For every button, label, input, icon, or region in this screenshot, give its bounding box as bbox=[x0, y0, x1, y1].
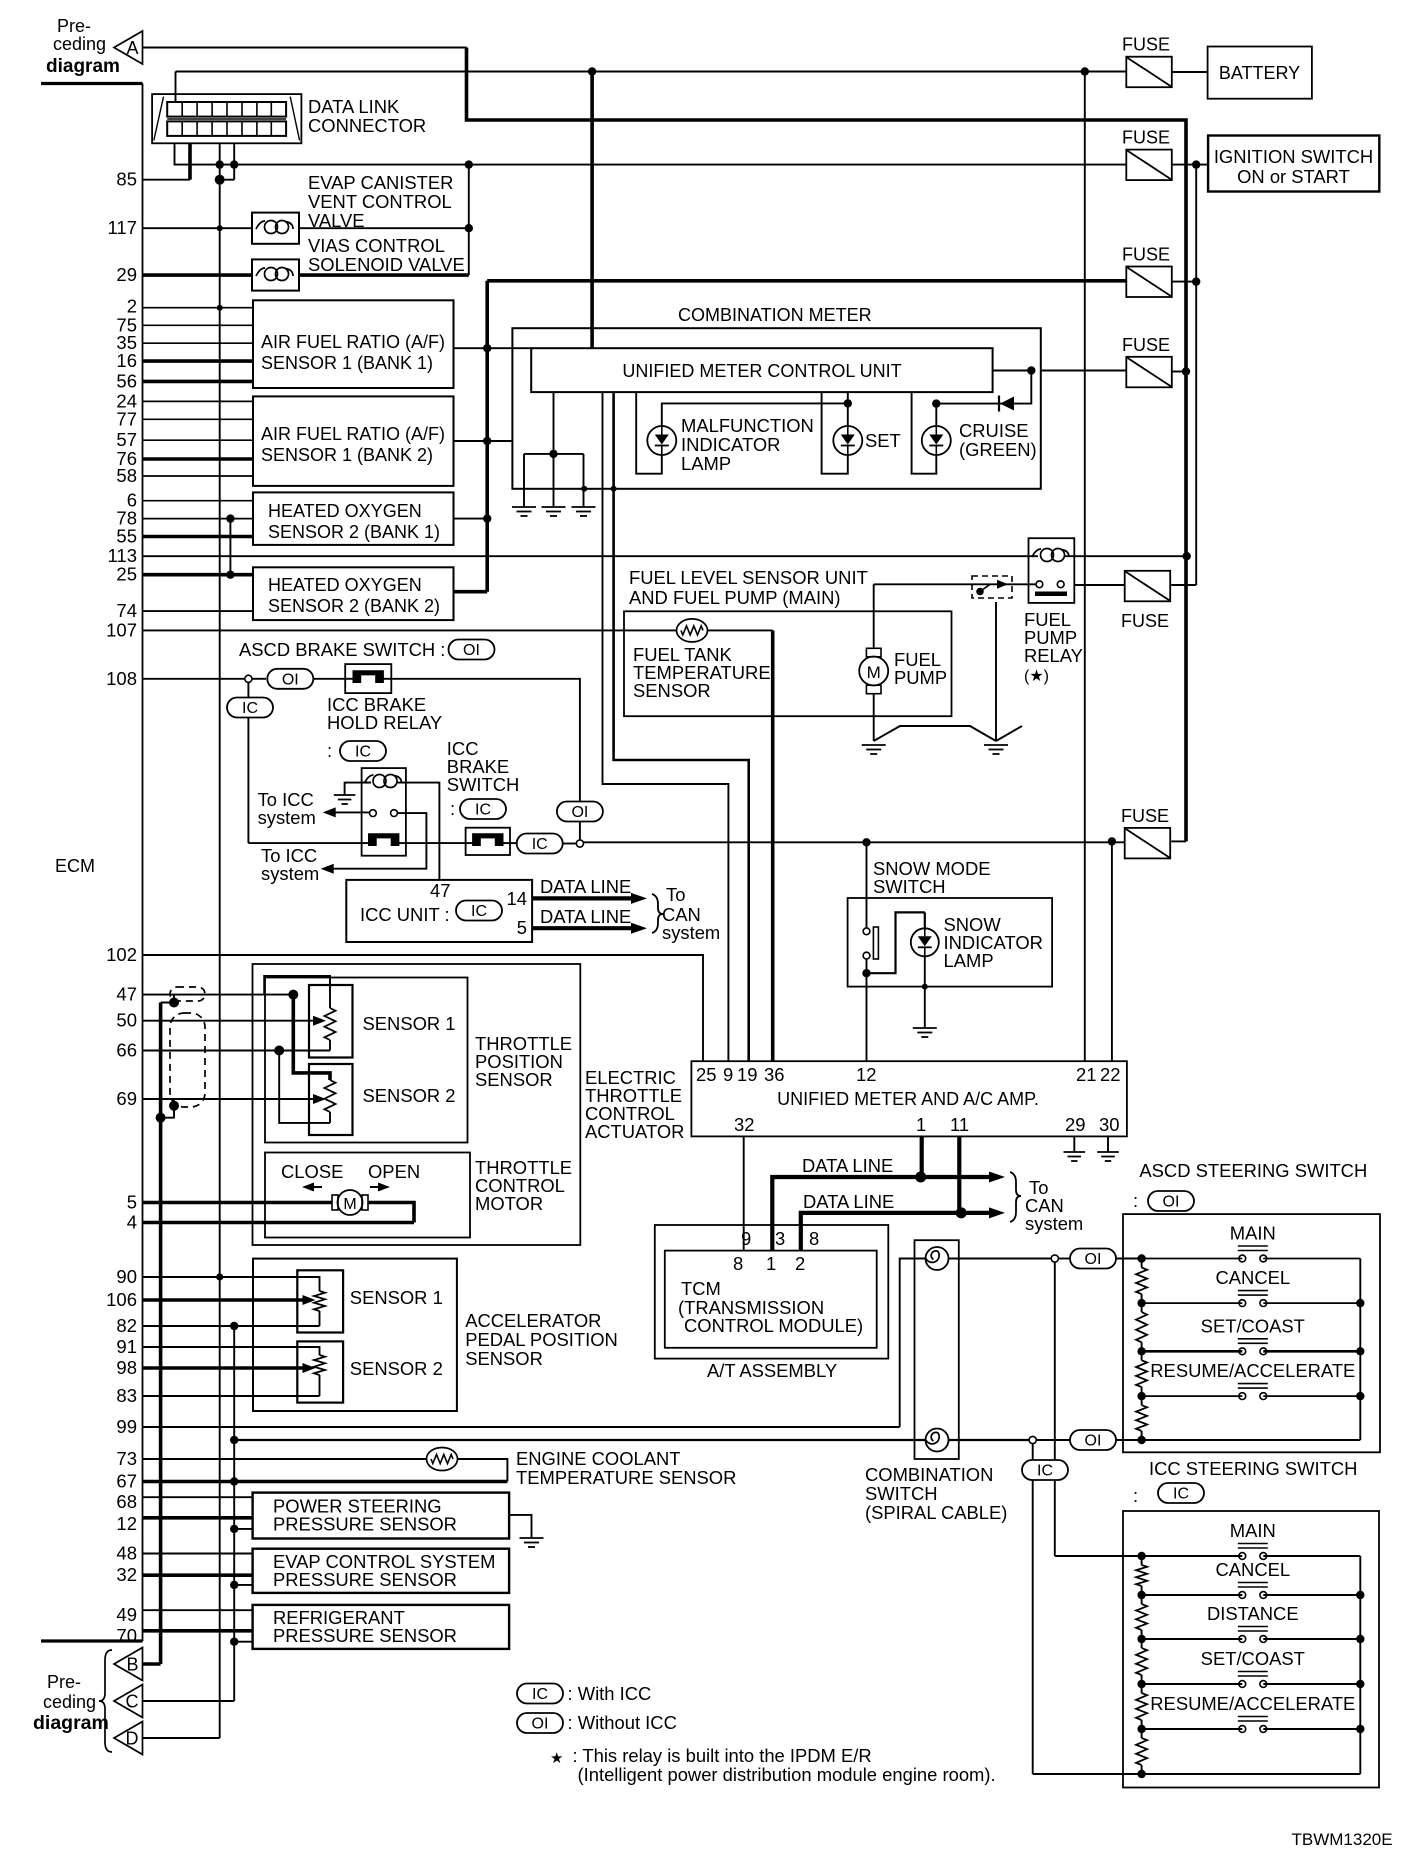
svg-text:(★): (★) bbox=[1024, 668, 1049, 685]
svg-text:SENSOR: SENSOR bbox=[465, 1348, 543, 1369]
svg-text::: : bbox=[327, 740, 332, 761]
svg-text:73: 73 bbox=[116, 1448, 137, 1469]
svg-text:OPEN: OPEN bbox=[368, 1161, 420, 1182]
svg-text:SET/COAST: SET/COAST bbox=[1201, 1648, 1305, 1669]
svg-text:SWITCH: SWITCH bbox=[447, 774, 520, 795]
svg-text:PRESSURE SENSOR: PRESSURE SENSOR bbox=[273, 1569, 457, 1590]
svg-text:C: C bbox=[126, 1692, 139, 1712]
svg-text:EVAP CANISTER: EVAP CANISTER bbox=[308, 172, 453, 193]
svg-text:AIR FUEL RATIO (A/F): AIR FUEL RATIO (A/F) bbox=[261, 424, 445, 444]
svg-text:66: 66 bbox=[116, 1040, 137, 1061]
svg-text:INDICATOR: INDICATOR bbox=[681, 434, 780, 455]
svg-text:LAMP: LAMP bbox=[681, 453, 731, 474]
svg-text:ceding: ceding bbox=[43, 1692, 96, 1712]
svg-text:IC: IC bbox=[242, 700, 258, 717]
svg-text:IC: IC bbox=[471, 903, 487, 920]
svg-text:ECM: ECM bbox=[55, 856, 95, 876]
svg-text:To: To bbox=[666, 884, 685, 905]
svg-text:: With ICC: : With ICC bbox=[568, 1683, 652, 1704]
svg-text:OI: OI bbox=[463, 642, 480, 659]
svg-text:OI: OI bbox=[1085, 1251, 1102, 1268]
svg-text:12: 12 bbox=[116, 1513, 137, 1534]
svg-text::: : bbox=[450, 798, 455, 819]
svg-text:IC: IC bbox=[532, 836, 548, 853]
svg-text:(SPIRAL CABLE): (SPIRAL CABLE) bbox=[865, 1502, 1007, 1523]
svg-text::: : bbox=[1133, 1485, 1138, 1506]
svg-text:FUSE: FUSE bbox=[1122, 245, 1170, 265]
svg-text:32: 32 bbox=[734, 1114, 754, 1135]
svg-text:4: 4 bbox=[127, 1212, 137, 1233]
svg-text:5: 5 bbox=[517, 917, 527, 938]
svg-text:29: 29 bbox=[116, 264, 137, 285]
svg-text:CLOSE: CLOSE bbox=[281, 1161, 343, 1182]
svg-text:8: 8 bbox=[809, 1228, 819, 1249]
svg-text:MOTOR: MOTOR bbox=[475, 1193, 543, 1214]
svg-text:IC: IC bbox=[475, 802, 491, 819]
svg-text:91: 91 bbox=[116, 1336, 137, 1357]
svg-text:69: 69 bbox=[116, 1088, 137, 1109]
svg-text:FUSE: FUSE bbox=[1122, 128, 1170, 148]
svg-text:COMBINATION METER: COMBINATION METER bbox=[678, 305, 872, 325]
svg-text:IGNITION SWITCH: IGNITION SWITCH bbox=[1214, 146, 1373, 167]
svg-text:82: 82 bbox=[116, 1315, 137, 1336]
svg-text:IC: IC bbox=[532, 1686, 548, 1703]
svg-text:OI: OI bbox=[1163, 1194, 1180, 1211]
svg-text:ASCD STEERING SWITCH: ASCD STEERING SWITCH bbox=[1139, 1160, 1367, 1181]
svg-text:TBWM1320E: TBWM1320E bbox=[1292, 1830, 1393, 1849]
svg-text:A: A bbox=[126, 38, 138, 58]
svg-text:90: 90 bbox=[116, 1266, 137, 1287]
svg-text:VIAS CONTROL: VIAS CONTROL bbox=[308, 235, 445, 256]
svg-text:CANCEL: CANCEL bbox=[1215, 1559, 1290, 1580]
svg-text:SENSOR 1 (BANK 2): SENSOR 1 (BANK 2) bbox=[261, 445, 433, 465]
svg-text:SENSOR 1 (BANK 1): SENSOR 1 (BANK 1) bbox=[261, 353, 433, 373]
svg-text:FUSE: FUSE bbox=[1122, 35, 1170, 55]
svg-text:32: 32 bbox=[116, 1564, 137, 1585]
svg-text:9: 9 bbox=[741, 1228, 751, 1249]
svg-text:29: 29 bbox=[1065, 1114, 1085, 1135]
svg-text:system: system bbox=[662, 922, 720, 943]
svg-text:Pre-: Pre- bbox=[47, 1672, 81, 1692]
svg-text:CRUISE: CRUISE bbox=[959, 420, 1029, 441]
svg-text:M: M bbox=[867, 663, 881, 682]
svg-text:47: 47 bbox=[116, 984, 137, 1005]
svg-text:SENSOR: SENSOR bbox=[633, 680, 711, 701]
svg-text:47: 47 bbox=[430, 880, 450, 901]
svg-text:CANCEL: CANCEL bbox=[1215, 1267, 1290, 1288]
svg-text:SENSOR: SENSOR bbox=[475, 1069, 553, 1090]
svg-text:106: 106 bbox=[106, 1289, 137, 1310]
svg-text:Pre-: Pre- bbox=[57, 16, 91, 36]
svg-text:ICC STEERING SWITCH: ICC STEERING SWITCH bbox=[1149, 1458, 1357, 1479]
svg-text:LAMP: LAMP bbox=[944, 950, 994, 971]
svg-text:HEATED OXYGEN: HEATED OXYGEN bbox=[268, 575, 422, 595]
svg-text:DATA LINE: DATA LINE bbox=[802, 1155, 893, 1176]
svg-text:HOLD RELAY: HOLD RELAY bbox=[327, 712, 442, 733]
svg-text:9: 9 bbox=[723, 1064, 733, 1085]
svg-text:FUSE: FUSE bbox=[1122, 335, 1170, 355]
svg-text:SWITCH: SWITCH bbox=[873, 876, 946, 897]
svg-text:HEATED OXYGEN: HEATED OXYGEN bbox=[268, 501, 422, 521]
svg-text:30: 30 bbox=[1099, 1114, 1119, 1135]
svg-text:RESUME/ACCELERATE: RESUME/ACCELERATE bbox=[1150, 1360, 1355, 1381]
svg-text:ENGINE COOLANT: ENGINE COOLANT bbox=[516, 1448, 681, 1469]
svg-text:SENSOR 2: SENSOR 2 bbox=[350, 1358, 443, 1379]
svg-text:ACCELERATOR: ACCELERATOR bbox=[465, 1310, 601, 1331]
svg-text:diagram: diagram bbox=[33, 1712, 109, 1734]
svg-text:83: 83 bbox=[116, 1385, 137, 1406]
svg-text:★: ★ bbox=[550, 1750, 563, 1767]
svg-text:DATA LINE: DATA LINE bbox=[540, 876, 631, 897]
svg-text:PRESSURE SENSOR: PRESSURE SENSOR bbox=[273, 1514, 457, 1535]
svg-text:FUSE: FUSE bbox=[1121, 806, 1169, 826]
svg-text:A/T ASSEMBLY: A/T ASSEMBLY bbox=[707, 1360, 837, 1381]
svg-text:MALFUNCTION: MALFUNCTION bbox=[681, 415, 814, 436]
svg-text:99: 99 bbox=[116, 1416, 137, 1437]
svg-text:49: 49 bbox=[116, 1604, 137, 1625]
svg-text:: Without ICC: : Without ICC bbox=[568, 1712, 677, 1733]
svg-text:system: system bbox=[258, 807, 316, 828]
svg-text:UNIFIED METER AND A/C AMP.: UNIFIED METER AND A/C AMP. bbox=[777, 1089, 1039, 1109]
svg-text:58: 58 bbox=[116, 465, 137, 486]
svg-text:RELAY: RELAY bbox=[1024, 645, 1083, 666]
svg-text:11: 11 bbox=[950, 1114, 969, 1135]
svg-text:2: 2 bbox=[795, 1253, 805, 1274]
svg-text:DATA LINE: DATA LINE bbox=[540, 906, 631, 927]
svg-text:CONNECTOR: CONNECTOR bbox=[308, 115, 426, 136]
svg-text:UNIFIED METER CONTROL UNIT: UNIFIED METER CONTROL UNIT bbox=[622, 361, 901, 381]
svg-text:DISTANCE: DISTANCE bbox=[1207, 1603, 1299, 1624]
svg-text:55: 55 bbox=[116, 526, 137, 547]
svg-text:SENSOR 2 (BANK 1): SENSOR 2 (BANK 1) bbox=[268, 522, 440, 542]
svg-text:ON or START: ON or START bbox=[1237, 166, 1350, 187]
svg-text:BATTERY: BATTERY bbox=[1219, 63, 1300, 83]
svg-text:56: 56 bbox=[116, 370, 137, 391]
svg-text:TCM: TCM bbox=[681, 1278, 721, 1299]
svg-text:SENSOR 1: SENSOR 1 bbox=[350, 1287, 443, 1308]
svg-text:D: D bbox=[126, 1729, 139, 1749]
svg-text:70: 70 bbox=[116, 1625, 137, 1646]
svg-text:25: 25 bbox=[116, 564, 137, 585]
svg-text:diagram: diagram bbox=[46, 56, 120, 77]
svg-text:SWITCH: SWITCH bbox=[865, 1483, 938, 1504]
svg-text:19: 19 bbox=[737, 1064, 757, 1085]
svg-text:AIR FUEL RATIO (A/F): AIR FUEL RATIO (A/F) bbox=[261, 332, 445, 352]
svg-text:DATA LINK: DATA LINK bbox=[308, 96, 400, 117]
svg-text:M: M bbox=[343, 1196, 356, 1213]
svg-text:107: 107 bbox=[106, 619, 137, 640]
svg-text:SOLENOID VALVE: SOLENOID VALVE bbox=[308, 254, 465, 275]
svg-text:OI: OI bbox=[282, 671, 299, 688]
svg-text:14: 14 bbox=[507, 888, 527, 909]
svg-text:8: 8 bbox=[733, 1253, 743, 1274]
svg-text:PUMP: PUMP bbox=[894, 667, 947, 688]
svg-text:IC: IC bbox=[1173, 1486, 1189, 1503]
svg-text:SENSOR 2: SENSOR 2 bbox=[363, 1085, 456, 1106]
svg-text:12: 12 bbox=[856, 1064, 876, 1085]
svg-text:67: 67 bbox=[116, 1471, 137, 1492]
svg-text:102: 102 bbox=[106, 944, 137, 965]
svg-text:FUSE: FUSE bbox=[1121, 611, 1169, 631]
svg-text:ICC UNIT :: ICC UNIT : bbox=[360, 904, 450, 925]
svg-text:68: 68 bbox=[116, 1491, 137, 1512]
svg-text:IC: IC bbox=[1037, 1463, 1053, 1480]
svg-text:117: 117 bbox=[108, 217, 138, 238]
svg-text:16: 16 bbox=[116, 350, 137, 371]
svg-text:IC: IC bbox=[355, 744, 371, 761]
svg-text:AND FUEL PUMP (MAIN): AND FUEL PUMP (MAIN) bbox=[629, 587, 841, 608]
svg-text:77: 77 bbox=[116, 408, 137, 429]
svg-text:TEMPERATURE SENSOR: TEMPERATURE SENSOR bbox=[516, 1467, 736, 1488]
svg-text:SENSOR 2 (BANK 2): SENSOR 2 (BANK 2) bbox=[268, 596, 440, 616]
svg-text:OI: OI bbox=[532, 1716, 549, 1733]
svg-text:VENT CONTROL: VENT CONTROL bbox=[308, 191, 452, 212]
svg-text:22: 22 bbox=[1100, 1064, 1120, 1085]
svg-text:OI: OI bbox=[1085, 1433, 1102, 1450]
svg-text:: This relay is built into the: : This relay is built into the IPDM E/R bbox=[573, 1745, 872, 1766]
svg-text:COMBINATION: COMBINATION bbox=[865, 1464, 993, 1485]
svg-text::: : bbox=[1133, 1190, 1138, 1211]
svg-text:VALVE: VALVE bbox=[308, 210, 365, 231]
svg-text:MAIN: MAIN bbox=[1230, 1223, 1276, 1244]
svg-text:36: 36 bbox=[764, 1064, 784, 1085]
svg-text:ceding: ceding bbox=[53, 34, 106, 54]
svg-text:PRESSURE SENSOR: PRESSURE SENSOR bbox=[273, 1625, 457, 1646]
svg-text:RESUME/ACCELERATE: RESUME/ACCELERATE bbox=[1150, 1693, 1355, 1714]
svg-text:(Intelligent power distributio: (Intelligent power distribution module e… bbox=[578, 1764, 996, 1785]
svg-text:PEDAL POSITION: PEDAL POSITION bbox=[465, 1329, 618, 1350]
svg-text:SENSOR 1: SENSOR 1 bbox=[363, 1013, 456, 1034]
svg-text:21: 21 bbox=[1076, 1064, 1096, 1085]
svg-text:25: 25 bbox=[696, 1064, 716, 1085]
svg-text:CONTROL MODULE): CONTROL MODULE) bbox=[684, 1315, 863, 1336]
svg-text:50: 50 bbox=[116, 1010, 137, 1031]
svg-text:1: 1 bbox=[766, 1253, 776, 1274]
svg-text:108: 108 bbox=[106, 668, 137, 689]
svg-text:ACTUATOR: ACTUATOR bbox=[585, 1121, 684, 1142]
svg-text:98: 98 bbox=[116, 1357, 137, 1378]
svg-text:48: 48 bbox=[116, 1543, 137, 1564]
svg-text:74: 74 bbox=[116, 600, 137, 621]
svg-text:DATA LINE: DATA LINE bbox=[803, 1191, 894, 1212]
svg-text:SET: SET bbox=[865, 430, 901, 451]
svg-text:system: system bbox=[1025, 1213, 1083, 1234]
svg-text:5: 5 bbox=[127, 1192, 137, 1213]
svg-text:ASCD BRAKE SWITCH :: ASCD BRAKE SWITCH : bbox=[239, 639, 445, 660]
svg-text:B: B bbox=[126, 1655, 138, 1675]
svg-text:OI: OI bbox=[571, 804, 588, 821]
svg-text:3: 3 bbox=[775, 1228, 785, 1249]
svg-text:MAIN: MAIN bbox=[1230, 1520, 1276, 1541]
svg-text:(GREEN): (GREEN) bbox=[959, 439, 1037, 460]
svg-text:85: 85 bbox=[116, 169, 137, 190]
svg-text:FUEL LEVEL SENSOR UNIT: FUEL LEVEL SENSOR UNIT bbox=[629, 567, 868, 588]
svg-text:1: 1 bbox=[916, 1114, 926, 1135]
svg-text:SET/COAST: SET/COAST bbox=[1201, 1315, 1305, 1336]
svg-text:system: system bbox=[261, 863, 319, 884]
